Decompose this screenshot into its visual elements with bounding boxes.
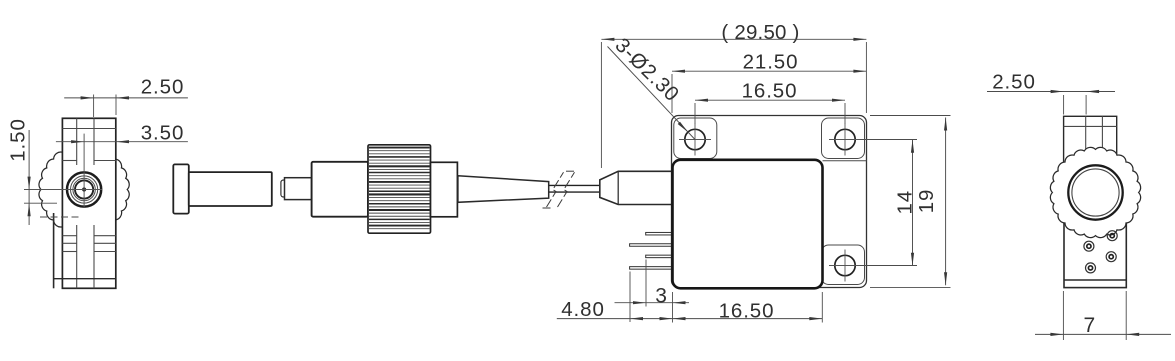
svg-text:1.50: 1.50 [7, 118, 30, 162]
left view: lower box line 3 right [94, 251, 116, 253]
ext line snout tip x=601.4 [600, 42, 602, 168]
right view: receptacle outer circle [1068, 165, 1122, 219]
module: fiber snout / strain relief [600, 171, 674, 204]
module: top-left hole crosshair horizontal [679, 139, 711, 141]
module: top-right hole pad contour [822, 118, 865, 159]
dim line 19 [945, 118, 947, 286]
ext line x=116 [115, 95, 117, 116]
module: bottom-right hole pad contour [822, 245, 865, 285]
FC connector: rear collar [431, 162, 458, 217]
dim line 4.80 / 16.50 [557, 318, 823, 320]
ext line hole x=695 [694, 103, 696, 124]
dim line 7 [1035, 333, 1171, 335]
ext line y=203.2 [24, 202, 57, 204]
svg-text:2.50: 2.50 [992, 71, 1036, 94]
arrow 1.50 upper [28, 177, 31, 190]
fiber break mark [558, 172, 575, 207]
arrow 19 bottom [944, 272, 947, 285]
right view: bottom band line [1064, 279, 1126, 281]
arrow 4.80 left [630, 317, 643, 320]
left view: vertical centerline [83, 134, 85, 208]
right view: top step line [1064, 125, 1117, 127]
dust cap: cylinder body [189, 172, 272, 206]
left view: bottom band line [54, 278, 116, 280]
module: snout step line [617, 171, 619, 204]
module: top-right hole crosshair horizontal [829, 139, 861, 141]
arrow 16.50 right [832, 99, 845, 102]
ext line y=287.4 [870, 286, 951, 288]
left view: lower divider left [76, 225, 78, 288]
module: mounting flange plate [672, 116, 867, 288]
right view: knurled coupling nut [1050, 147, 1140, 237]
arrow 7 right [1126, 333, 1139, 336]
left view: hidden dash line [40, 216, 79, 218]
ext line x=93.6 [93, 95, 95, 118]
ext line hole x=845 [844, 103, 846, 124]
left view: lower box line 2 left [62, 242, 76, 244]
left view: lower box line 1 right [94, 235, 116, 237]
right view: top block divider left [1085, 116, 1087, 155]
left view: bore inner ring [75, 180, 93, 198]
FC connector: ferrule tip [281, 180, 286, 197]
ext line pin tip x=630 [629, 272, 631, 323]
svg-text:16.50: 16.50 [742, 80, 798, 103]
left view: lower divider right [93, 225, 95, 288]
FC connector: strain-relief boot [458, 176, 549, 203]
arrow 7 left [1050, 333, 1063, 336]
svg-text:14: 14 [894, 190, 917, 215]
fiber cable upper line [549, 184, 600, 186]
left view: shoulder line right segment [94, 160, 116, 162]
FC connector: knurl hatch lines [369, 147, 430, 149]
left view: horizontal centerline [24, 189, 103, 191]
ext line y=139.5 [860, 139, 917, 141]
left view: bore center dot [83, 188, 86, 191]
left view: receptacle body front face [62, 118, 115, 288]
module: top-right mounting hole [835, 129, 855, 149]
dim line 29.50 [601, 38, 866, 40]
ext line package left x=672.5 [672, 292, 674, 323]
ext line x=1086.1 [1085, 95, 1087, 115]
arrow 1.50 lower [28, 203, 31, 216]
dim line 3 [615, 302, 690, 304]
left view: lower box line 1 left [62, 235, 76, 237]
left view: shoulder line left segment [62, 160, 76, 162]
arrow pair at package edge (left) [660, 317, 673, 320]
svg-text:3.50: 3.50 [141, 121, 185, 144]
left view: knurled coupling nut (edge scallops) [39, 144, 129, 234]
dim line 3.50 (left view) [56, 141, 188, 143]
left view: top block divider right [93, 118, 95, 165]
dim line 21.50 [672, 70, 866, 72]
left view: lower-left body edge [53, 213, 55, 288]
dim line 14 [912, 140, 914, 266]
svg-text:( 29.50 ): ( 29.50 ) [721, 21, 799, 44]
dim line 1.50 (left view) [28, 130, 30, 225]
leader 3-Ø2.30 [608, 47, 696, 140]
leader arrowhead [678, 122, 688, 132]
arrow 16.50 left [695, 99, 708, 102]
break mark tick top [566, 170, 574, 172]
arrow pair at package edge (right) [673, 317, 686, 320]
module: top-left hole pad contour [674, 118, 717, 159]
arrow 2.50 right-view left [1051, 90, 1064, 93]
ext line x=1063.4 [1062, 291, 1064, 340]
FC connector: ferrule [285, 178, 312, 200]
left view: bore ring 2 [71, 176, 98, 203]
module: bottom-right hole crosshair vertical [844, 250, 846, 282]
module: bottom-right hole crosshair horizontal [829, 265, 861, 267]
arrow 16.50 right [809, 317, 822, 320]
arrow 3 left [633, 301, 646, 304]
module: top-left hole crosshair vertical [694, 124, 696, 156]
module: top-right hole crosshair vertical [844, 124, 846, 156]
right view: top block divider right [1101, 116, 1103, 155]
arrow 3.50 left [71, 140, 84, 143]
svg-text:3: 3 [655, 285, 668, 308]
module: right shoulder step line [823, 160, 867, 162]
dust cap: end cap [173, 164, 189, 213]
right view: lower body [1064, 200, 1126, 288]
fiber break mark [547, 172, 564, 207]
left view: top step line [62, 128, 115, 130]
svg-text:19: 19 [915, 189, 938, 214]
arrow 14 top [911, 140, 914, 153]
right view: top block [1064, 116, 1117, 171]
module: top-left mounting hole [685, 129, 705, 149]
dim line 2.50 (left view) [64, 97, 188, 99]
dim line 16.50 top [695, 99, 845, 101]
arrow 3.50 right [116, 140, 129, 143]
right view: 4 lead-end screws [1107, 231, 1117, 241]
arrow 2.50 right-view right [1086, 90, 1099, 93]
svg-text:7: 7 [1084, 314, 1097, 337]
ext line pin tip x=646 [645, 260, 647, 307]
left view: lower box line 2 right [94, 242, 116, 244]
FC connector: knurled nut [368, 145, 431, 233]
arrow 21.50 left [672, 70, 685, 73]
ext line y=115.5 [870, 115, 951, 117]
module: bottom-right mounting hole [835, 255, 855, 275]
ext line x=1063.6 [1063, 95, 1065, 115]
FC connector: front body [312, 162, 368, 217]
arrow 14 bottom [911, 253, 914, 266]
left view: fiber bore outer ring [67, 172, 101, 206]
arrow 3 right [673, 301, 686, 304]
arrow 2.50 right [116, 96, 129, 99]
arrow 29.50 left [601, 38, 614, 41]
ext line flange right x=866.4 [865, 42, 867, 113]
right view: receptacle inner circle [1072, 169, 1119, 216]
break mark tick bottom [543, 207, 551, 209]
arrow 29.50 right [853, 38, 866, 41]
left view: bore ring 3 [73, 178, 95, 200]
svg-text:4.80: 4.80 [561, 298, 605, 321]
arrow 19 top [944, 118, 947, 131]
ext line y=265.5 [860, 265, 917, 267]
left view: top block divider left [76, 118, 78, 165]
ext line flange left x=672 [671, 74, 673, 113]
ext line package right x=822.3 [821, 292, 823, 323]
svg-text:21.50: 21.50 [743, 51, 799, 74]
left view: lower box line 3 left [62, 251, 76, 253]
fiber cable lower line [549, 191, 600, 193]
dim line 2.50 (right view) [987, 91, 1115, 93]
module: package body (thick outline) [673, 160, 823, 288]
ext line x=1126.2 [1125, 291, 1127, 340]
arrow 2.50 left [81, 96, 94, 99]
module: leads (4 pins) [646, 232, 674, 235]
arrow 21.50 right [853, 70, 866, 73]
svg-text:2.50: 2.50 [141, 76, 185, 99]
